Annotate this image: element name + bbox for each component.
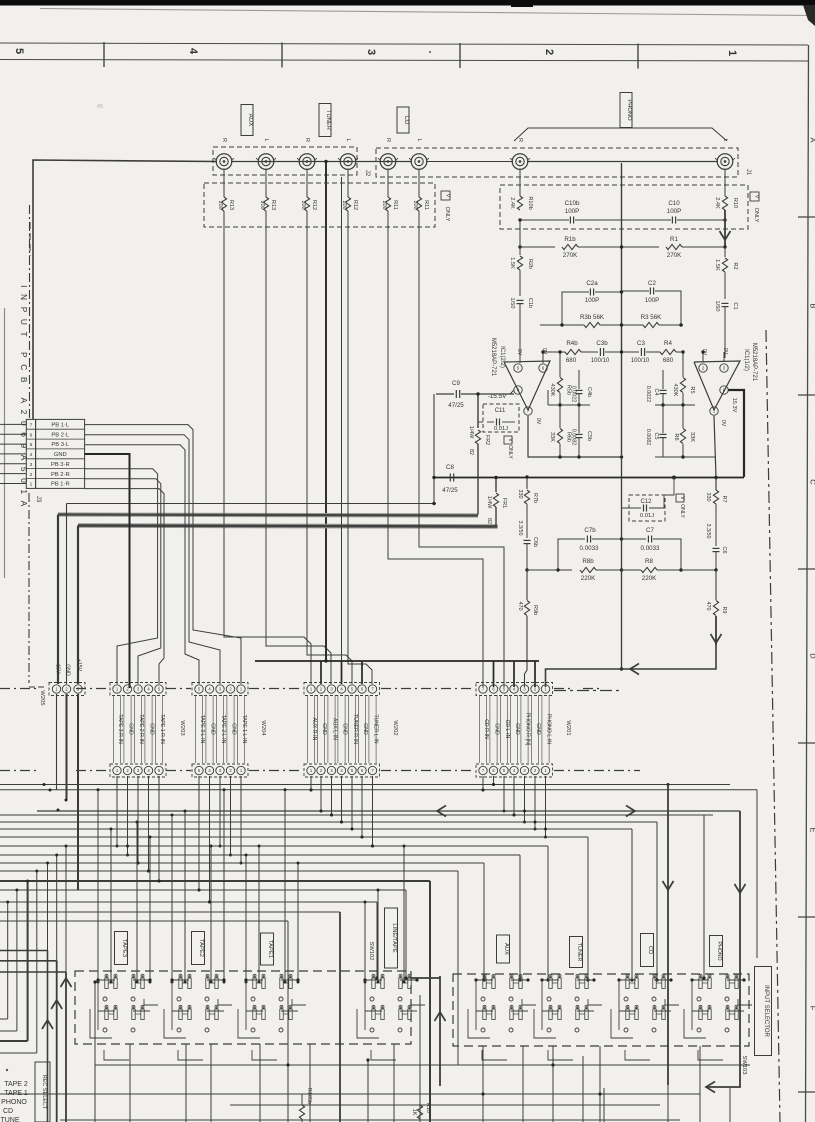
svg-text:5: 5 — [30, 442, 33, 448]
resistor R105b bottom — [299, 1105, 304, 1119]
wire pin6 to feedback row — [542, 352, 544, 363]
wire mesh y789 — [0, 789, 757, 791]
svg-text:R2b: R2b — [527, 259, 533, 269]
svg-text:GND: GND — [65, 664, 71, 676]
wire jack ground joins y661 — [325, 637, 327, 661]
wire J3 GND out thick — [85, 454, 130, 688]
resistor R2b 1.5K — [519, 220, 521, 255]
svg-text:ONLY: ONLY — [507, 445, 513, 459]
wire feed drop x298 — [297, 863, 299, 982]
svg-text:R3 56K: R3 56K — [641, 314, 663, 321]
V ONLY marker (input resistors) — [441, 191, 450, 200]
border right tick y217 — [798, 216, 815, 218]
capacitor C4 0.0022 — [662, 370, 664, 389]
arrowhead R9 output — [715, 616, 717, 645]
wire mesh y855 — [0, 854, 520, 856]
wire mesh y815 — [0, 814, 713, 816]
svg-text:1/4W: 1/4W — [486, 496, 492, 509]
svg-text:W201: W201 — [565, 720, 571, 735]
svg-text:0.0082: 0.0082 — [571, 429, 577, 446]
connector W204 pin labels — [194, 695, 196, 763]
thick feedback bus horizontal y477 — [434, 477, 744, 479]
V ONLY marker (phono) — [750, 192, 759, 201]
wires below connectors to mesh — [116, 776, 118, 846]
gnd bus thin line y503 — [67, 503, 437, 505]
resistor R10b 2.4K — [519, 169, 521, 196]
svg-text:4: 4 — [187, 48, 199, 55]
svg-text:100P: 100P — [645, 297, 659, 304]
CD R jack — [380, 154, 396, 170]
arrow on phono route — [630, 664, 639, 675]
svg-text:J3: J3 — [35, 496, 41, 503]
PHONO L jack — [717, 154, 733, 170]
svg-text:C: C — [809, 479, 815, 485]
svg-text:C7b: C7b — [584, 527, 596, 534]
wire mesh y863 — [0, 862, 484, 864]
wire drop x484 — [483, 863, 485, 980]
page frame: top-right corner mark — [803, 5, 815, 26]
wire C11 left lead — [478, 421, 483, 423]
svg-text:TAPE2: TAPE2 — [198, 939, 204, 957]
svg-text:W205: W205 — [39, 690, 45, 705]
wire mesh y921 — [0, 920, 288, 922]
svg-text:100P: 100P — [667, 208, 681, 215]
svg-text:0V: 0V — [516, 349, 522, 356]
switch group LINE/TAPE contacts — [372, 978, 375, 989]
svg-text:GND: GND — [535, 723, 541, 735]
svg-text:0.01J: 0.01J — [494, 426, 508, 432]
svg-text:TAPE 2 L·IN: TAPE 2 L·IN — [220, 715, 226, 744]
border ruler line lower — [0, 60, 808, 62]
svg-text:PHONO R·[N]: PHONO R·[N] — [525, 713, 531, 746]
wire drop x406 — [405, 890, 407, 978]
op-amp IC1(2/2) triangle — [504, 361, 550, 410]
svg-text:AUX L·IN: AUX L·IN — [332, 718, 338, 740]
bottom long wire y1065 — [95, 1064, 750, 1066]
label box CD — [641, 934, 654, 967]
svg-text:A: A — [809, 137, 815, 142]
switch group AUX contacts — [483, 978, 486, 989]
label box TAPE2 — [192, 932, 205, 965]
svg-text:R10b: R10b — [527, 196, 533, 209]
wire feed drop x224 — [223, 790, 225, 982]
svg-text:0V: 0V — [722, 348, 728, 355]
svg-text:1.5K: 1.5K — [509, 257, 515, 269]
wire jack bus AUX-CD — [231, 161, 412, 163]
border right tick y569 — [798, 568, 815, 570]
board outline dash-dot through connector rows bottom — [0, 770, 40, 772]
label box TUNER — [319, 104, 331, 137]
bundle bottom horizontals to left edge — [0, 1018, 8, 1020]
wire bundle vertical x27 — [27, 881, 29, 1041]
wire feed drop x285 — [284, 790, 286, 982]
svg-text:82: 82 — [468, 449, 474, 455]
wire drop x288 — [287, 921, 289, 1065]
svg-text:100P: 100P — [565, 208, 579, 215]
svg-text:PB 2·L: PB 2·L — [51, 432, 69, 438]
svg-text:R3b 56K: R3b 56K — [580, 314, 605, 321]
ground bus line y661 — [255, 660, 539, 662]
connector W204 bottom pin row — [192, 764, 248, 777]
wire center vertical lower — [621, 457, 623, 669]
switch group CD contacts — [626, 978, 629, 989]
wire pin3 up to C1 — [723, 352, 725, 362]
svg-text:0.0033: 0.0033 — [580, 545, 599, 552]
resistor R2 1.5K — [724, 247, 726, 257]
power bus below W205 continuations — [66, 694, 68, 800]
bottom long wire y1094 — [0, 1093, 700, 1095]
svg-text:CD L·IN: CD L·IN — [504, 720, 510, 739]
svg-text:GND: GND — [494, 723, 500, 735]
svg-text:R11: R11 — [392, 200, 398, 210]
wire drop x588 — [587, 837, 589, 980]
up arrows on bundle — [61, 978, 72, 987]
resistor R13 100 — [265, 169, 267, 197]
wire mesh y811 — [37, 810, 740, 812]
svg-text:680: 680 — [663, 357, 674, 364]
wire feed drop x259 — [258, 846, 260, 982]
wire mesh y784 — [0, 784, 730, 786]
wire C9 return vertical x434 — [433, 394, 435, 504]
AUX L jack — [258, 154, 274, 170]
resistor R7b 330 — [526, 477, 528, 489]
svg-text:C2: C2 — [648, 280, 656, 287]
switch group TAPE3 contacts — [105, 978, 108, 989]
small dot near col 3 — [429, 51, 431, 53]
wire mesh y902 — [0, 901, 377, 903]
svg-text:C9: C9 — [452, 380, 460, 387]
svg-text:TAPE 2 R·IN: TAPE 2 R·IN — [138, 714, 144, 744]
svg-text:J1: J1 — [745, 169, 751, 176]
svg-text:R1b: R1b — [564, 236, 576, 243]
svg-text:F: F — [809, 1006, 815, 1011]
svg-text:4: 4 — [30, 452, 33, 458]
board outline dash-dot left vertical upper — [29, 205, 31, 418]
wire mesh y846 — [0, 845, 548, 847]
wire feed drop x150 — [149, 837, 151, 982]
arrow left on bottom thick wire — [706, 1082, 715, 1093]
board outline dash-dot right of W201 top — [554, 690, 620, 692]
svg-text:FR2: FR2 — [484, 435, 490, 445]
connector W201 top pin row — [476, 683, 553, 696]
capacitor C4b 0.0022 — [578, 370, 580, 389]
svg-text:L: L — [345, 138, 351, 141]
phono network dashed box — [500, 185, 748, 229]
svg-text:0.0082: 0.0082 — [645, 429, 651, 446]
wire feed drop x137 — [136, 822, 138, 982]
connector W203 pin labels — [112, 695, 114, 763]
wire bundle vertical x56 — [56, 855, 58, 961]
wire bundle vertical x47 — [47, 863, 49, 951]
svg-text:GND: GND — [362, 723, 368, 735]
V ONLY marker C12 — [676, 494, 684, 502]
svg-text:C1b: C1b — [527, 298, 533, 308]
wire pin1 output down — [714, 416, 716, 478]
wire drop x377 — [376, 902, 378, 978]
arrowhead on phono L wire — [720, 231, 731, 240]
thick vertical wire with up arrow near LINE/TAPE — [439, 976, 441, 1086]
capacitor C1b 1/50 — [517, 299, 524, 301]
svg-text:0.0022: 0.0022 — [645, 386, 651, 403]
svg-text:33K: 33K — [689, 432, 695, 442]
wire feed drop x378 — [377, 890, 379, 982]
wire TUNER R down — [307, 211, 352, 684]
svg-text:TAPE 3 L·IN: TAPE 3 L·IN — [199, 715, 205, 744]
op-amp pin 4 — [514, 386, 522, 394]
wire feed drop x246 — [245, 855, 247, 982]
page left edge line — [4, 308, 6, 578]
svg-text:330: 330 — [517, 490, 523, 499]
svg-text:TUNER: TUNER — [325, 110, 331, 130]
wire shield ground mid — [341, 177, 343, 661]
op-amp pin 6 — [539, 364, 547, 372]
power bus drop -15V — [57, 515, 59, 685]
svg-text:R1: R1 — [670, 236, 678, 243]
svg-text:R7: R7 — [721, 496, 727, 503]
svg-text:PB 3·R: PB 3·R — [51, 462, 70, 468]
svg-text:GND: GND — [54, 452, 67, 458]
mid junction row right — [655, 404, 695, 406]
svg-text:GND: GND — [514, 723, 520, 735]
svg-text:330: 330 — [705, 493, 711, 502]
svg-text:#5: #5 — [97, 104, 103, 110]
svg-text:TUNER R·IN: TUNER R·IN — [352, 714, 358, 744]
power bus thick -15V y514 — [58, 515, 478, 516]
wire drop x704 — [703, 815, 705, 978]
svg-text:TAPE 3 R·IN: TAPE 3 R·IN — [117, 714, 123, 744]
wire feed drop x98 — [97, 790, 99, 982]
svg-text:LINE/TAPE: LINE/TAPE — [391, 923, 397, 952]
junction dots filter rows — [556, 568, 559, 571]
wire filter row to r9b — [527, 569, 558, 571]
svg-text:2.4K: 2.4K — [714, 197, 720, 209]
wire J3 PB3L out — [85, 445, 199, 684]
svg-text:R4b: R4b — [566, 340, 578, 347]
op-amp pin 3 — [720, 364, 728, 372]
wire J3 PB2R out — [85, 479, 161, 684]
svg-text:C8: C8 — [446, 464, 454, 471]
svg-text:1.5K: 1.5K — [714, 259, 720, 271]
border right tick y395 — [798, 394, 815, 396]
svg-text:0V: 0V — [720, 420, 726, 427]
svg-text:ONLY: ONLY — [753, 208, 759, 223]
border right tick y743 — [798, 742, 815, 744]
svg-text:7: 7 — [30, 423, 33, 429]
svg-text:0.0033: 0.0033 — [641, 545, 660, 552]
svg-text:IC1(2/2): IC1(2/2) — [499, 346, 505, 368]
V ONLY marker C11 — [504, 436, 512, 444]
svg-text:ONLY: ONLY — [679, 504, 685, 518]
wire drop x458 — [457, 871, 459, 1065]
svg-text:TAPE 1 L·IN: TAPE 1 L·IN — [241, 715, 247, 744]
svg-text:L: L — [722, 138, 728, 141]
wire mesh y912 — [0, 911, 340, 913]
label box CD — [397, 107, 409, 133]
resistor R9 470 — [715, 570, 717, 600]
svg-text:GND: GND — [321, 723, 327, 735]
svg-text:PHONO: PHONO — [716, 941, 722, 960]
AUX R jack — [216, 154, 232, 170]
PHONO R jack — [512, 154, 528, 170]
svg-text:C1: C1 — [732, 302, 738, 309]
svg-text:1: 1 — [726, 50, 738, 56]
connector W201 bottom pin row — [476, 764, 553, 777]
svg-text:0.0022: 0.0022 — [571, 386, 577, 403]
connector W203 top pin row — [110, 683, 166, 696]
wire mesh y829 — [0, 828, 632, 830]
connector W202 top pin row — [304, 683, 380, 696]
bottom extra verticals right — [729, 1087, 731, 1122]
svg-text:470: 470 — [517, 602, 523, 611]
op-amp pin 5 — [514, 364, 522, 372]
svg-text:-15V: -15V — [55, 663, 61, 674]
power bus thick +15V y525 — [78, 526, 498, 527]
svg-text:AUX: AUX — [247, 114, 254, 127]
svg-text:C3: C3 — [637, 340, 645, 347]
wire feed drop x111 — [110, 829, 112, 982]
svg-text:CD: CD — [647, 946, 653, 954]
wire drop x520 — [519, 855, 521, 980]
op-amp pin 8 — [720, 386, 728, 394]
svg-text:C7: C7 — [646, 527, 654, 534]
resistor R7 330 — [713, 490, 718, 504]
board outline dash-dot through connector rows top — [0, 688, 40, 690]
svg-text:M5218AP-721: M5218AP-721 — [490, 338, 496, 377]
SW102 dashed outline — [75, 971, 411, 1044]
border right vertical line — [806, 45, 809, 1122]
wire AUX R down — [224, 211, 311, 684]
wire CD L down — [419, 211, 504, 687]
svg-text:SW102: SW102 — [368, 941, 374, 960]
svg-text:INPUT SELECTOR: INPUT SELECTOR — [763, 985, 769, 1037]
wire J3 PB3R out — [85, 469, 158, 684]
svg-text:R9: R9 — [721, 607, 727, 614]
svg-text:100: 100 — [412, 200, 418, 209]
svg-text:100/10: 100/10 — [591, 358, 610, 364]
resistor R6b 33K — [559, 405, 561, 428]
svg-text:R10: R10 — [425, 1103, 431, 1113]
junction dots r1 row — [518, 245, 521, 248]
border ruler line upper — [0, 43, 808, 45]
resistor R13 100 — [223, 169, 225, 197]
svg-text:100P: 100P — [585, 297, 599, 304]
svg-text:R12: R12 — [352, 200, 358, 210]
svg-text:PB 1·R: PB 1·R — [51, 482, 70, 488]
TUNER R jack — [299, 154, 315, 170]
svg-text:GND: GND — [128, 723, 134, 735]
wire ground drop from jack bus — [324, 160, 327, 163]
op-amp pin 2 — [699, 364, 707, 372]
wire feed drop x404 — [403, 846, 405, 982]
svg-text:CD: CD — [3, 1108, 13, 1115]
wire phono L output route — [546, 643, 717, 687]
junction dots bottom — [93, 980, 96, 983]
svg-text:2: 2 — [30, 472, 33, 478]
resistor R5b 430K — [559, 352, 561, 377]
svg-text:C2a: C2a — [586, 280, 598, 287]
svg-text:PHONO: PHONO — [1, 1099, 27, 1106]
svg-text:B: B — [809, 303, 815, 308]
svg-text:GND: GND — [342, 723, 348, 735]
label box TUNER — [570, 937, 583, 968]
svg-text:R8: R8 — [645, 558, 653, 565]
wire phono center shield — [621, 163, 623, 455]
page frame: scanner top edge bar — [0, 0, 815, 6]
wire drop x548 — [547, 846, 549, 980]
svg-text:W203: W203 — [179, 720, 185, 735]
svg-text:220K: 220K — [642, 575, 657, 582]
svg-text:R8b: R8b — [582, 558, 594, 565]
svg-text:6: 6 — [30, 432, 33, 438]
junction dots phono 220 — [518, 218, 521, 221]
wire pin2 connect — [702, 352, 704, 362]
junction dots mesh — [43, 783, 46, 786]
small dot left — [6, 1069, 8, 1071]
svg-text:C5b: C5b — [586, 431, 592, 441]
arrows on mesh wire y811 — [437, 806, 446, 817]
resistor R5 430K — [682, 352, 684, 377]
label box INPUT SELECTOR — [755, 967, 772, 1056]
wire PHONO R to PHONO L — [527, 161, 718, 163]
svg-text:PB 3·L: PB 3·L — [51, 442, 69, 448]
wire drop x632 — [631, 829, 633, 980]
connector J1 dashed box — [376, 148, 738, 177]
bottom long wire y1120 — [60, 1119, 680, 1121]
svg-text:100: 100 — [381, 200, 387, 209]
label box AUX — [497, 935, 510, 963]
bundle lower verticals continue to bottom — [47, 951, 49, 1122]
bottom long wire y1105 — [230, 1104, 660, 1106]
svg-text:3.3/50: 3.3/50 — [705, 524, 711, 539]
connector W202 bottom pin row — [304, 764, 380, 777]
svg-text:430K: 430K — [672, 383, 678, 396]
wire AUX R to left edge — [33, 160, 217, 419]
svg-text:C6: C6 — [721, 547, 727, 554]
svg-text:W204: W204 — [260, 720, 266, 736]
svg-text:AUX R·IN: AUX R·IN — [311, 718, 317, 741]
connector J2 dashed box — [213, 147, 357, 175]
border right tick y1092 — [798, 1091, 815, 1093]
wire mesh y890 — [0, 889, 406, 891]
svg-text:PB 2·R: PB 2·R — [51, 472, 70, 478]
svg-text:L: L — [416, 138, 422, 141]
svg-text:15.3V: 15.3V — [731, 398, 737, 413]
svg-text:V: V — [754, 195, 760, 199]
svg-text:GND: GND — [210, 723, 216, 735]
power bus drop gnd — [66, 504, 68, 685]
switch group TUNER contacts — [549, 978, 552, 989]
svg-text:680: 680 — [566, 357, 577, 364]
page frame: paper top edge line — [40, 9, 815, 16]
wires into J3 from left — [0, 423, 26, 425]
board outline dash-dot corner to W205 — [29, 686, 47, 688]
TUNER L jack — [340, 154, 356, 170]
resistor R12 100 — [306, 169, 308, 197]
wire J3 PB2L out — [85, 435, 220, 684]
capacitor C12 dashed box — [629, 495, 665, 521]
svg-text:TAPE1: TAPE1 — [267, 940, 273, 958]
svg-text:TAPE 2: TAPE 2 — [4, 1081, 28, 1088]
switch group lead wires — [97, 980, 99, 1030]
resistor FR2 1/4W 82 — [477, 394, 479, 428]
op-amp pin 7 — [524, 407, 532, 415]
svg-text:REC SELECT: REC SELECT — [41, 1075, 47, 1110]
svg-text:D: D — [809, 653, 815, 659]
resistor R11 100 — [418, 169, 420, 197]
bottom verticals — [94, 982, 96, 1122]
svg-text:W202: W202 — [392, 720, 398, 735]
svg-text:47/25: 47/25 — [448, 402, 464, 409]
